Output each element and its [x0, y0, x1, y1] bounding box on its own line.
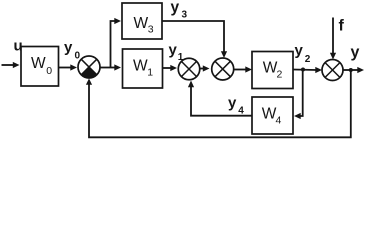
- label y2: [295, 42, 311, 65]
- svg-text:y: y: [351, 44, 360, 61]
- svg-text:W: W: [31, 55, 46, 72]
- wire W0 to S1: [59, 64, 78, 70]
- label y0: [64, 39, 81, 62]
- wire S1 to W1: [100, 64, 121, 70]
- wire S3 to W2: [234, 66, 252, 72]
- wire y3 from W3 down to S3: [162, 21, 227, 58]
- svg-text:W: W: [134, 15, 149, 32]
- wire W2 to S4 with junction node: [293, 67, 322, 73]
- block W2: [252, 52, 293, 89]
- svg-text:3: 3: [148, 24, 154, 36]
- summing junction S3: [212, 58, 234, 80]
- svg-text:f: f: [339, 18, 345, 35]
- wire W1 to S2: [163, 65, 178, 71]
- svg-text:y: y: [228, 95, 237, 112]
- svg-text:0: 0: [46, 65, 52, 77]
- wire y4 from W4 left up to S2: [188, 81, 252, 116]
- svg-text:4: 4: [276, 115, 282, 127]
- wire input u arrow: [2, 62, 20, 68]
- label y1: [169, 42, 184, 64]
- svg-text:2: 2: [305, 54, 311, 65]
- summing junction S4: [322, 60, 343, 81]
- wire branch up to W3: [111, 18, 122, 68]
- wire S2 to S3: [200, 65, 210, 71]
- arrowhead feedback into S1: [86, 79, 92, 85]
- label y4: [228, 95, 244, 117]
- svg-text:y: y: [64, 39, 73, 56]
- summing junction S1: [78, 56, 100, 78]
- block W4: [252, 97, 293, 134]
- svg-text:2: 2: [277, 69, 283, 81]
- wire y2 tap down to W4 input: [294, 70, 303, 120]
- svg-text:y: y: [169, 42, 178, 59]
- block W1: [123, 49, 163, 88]
- block W3: [122, 3, 162, 39]
- svg-text:W: W: [133, 58, 148, 75]
- svg-text:3: 3: [182, 10, 188, 21]
- svg-text:1: 1: [147, 67, 153, 79]
- wire feedback from output down and across bottom to S1: [89, 70, 351, 137]
- block W0: [21, 47, 59, 87]
- svg-text:y: y: [171, 0, 180, 16]
- wire S4 to output y with junction node: [343, 67, 364, 73]
- label y3: [171, 0, 188, 21]
- wire f input down to S4: [330, 18, 336, 60]
- svg-text:y: y: [295, 42, 304, 59]
- summing junction S2: [178, 58, 200, 80]
